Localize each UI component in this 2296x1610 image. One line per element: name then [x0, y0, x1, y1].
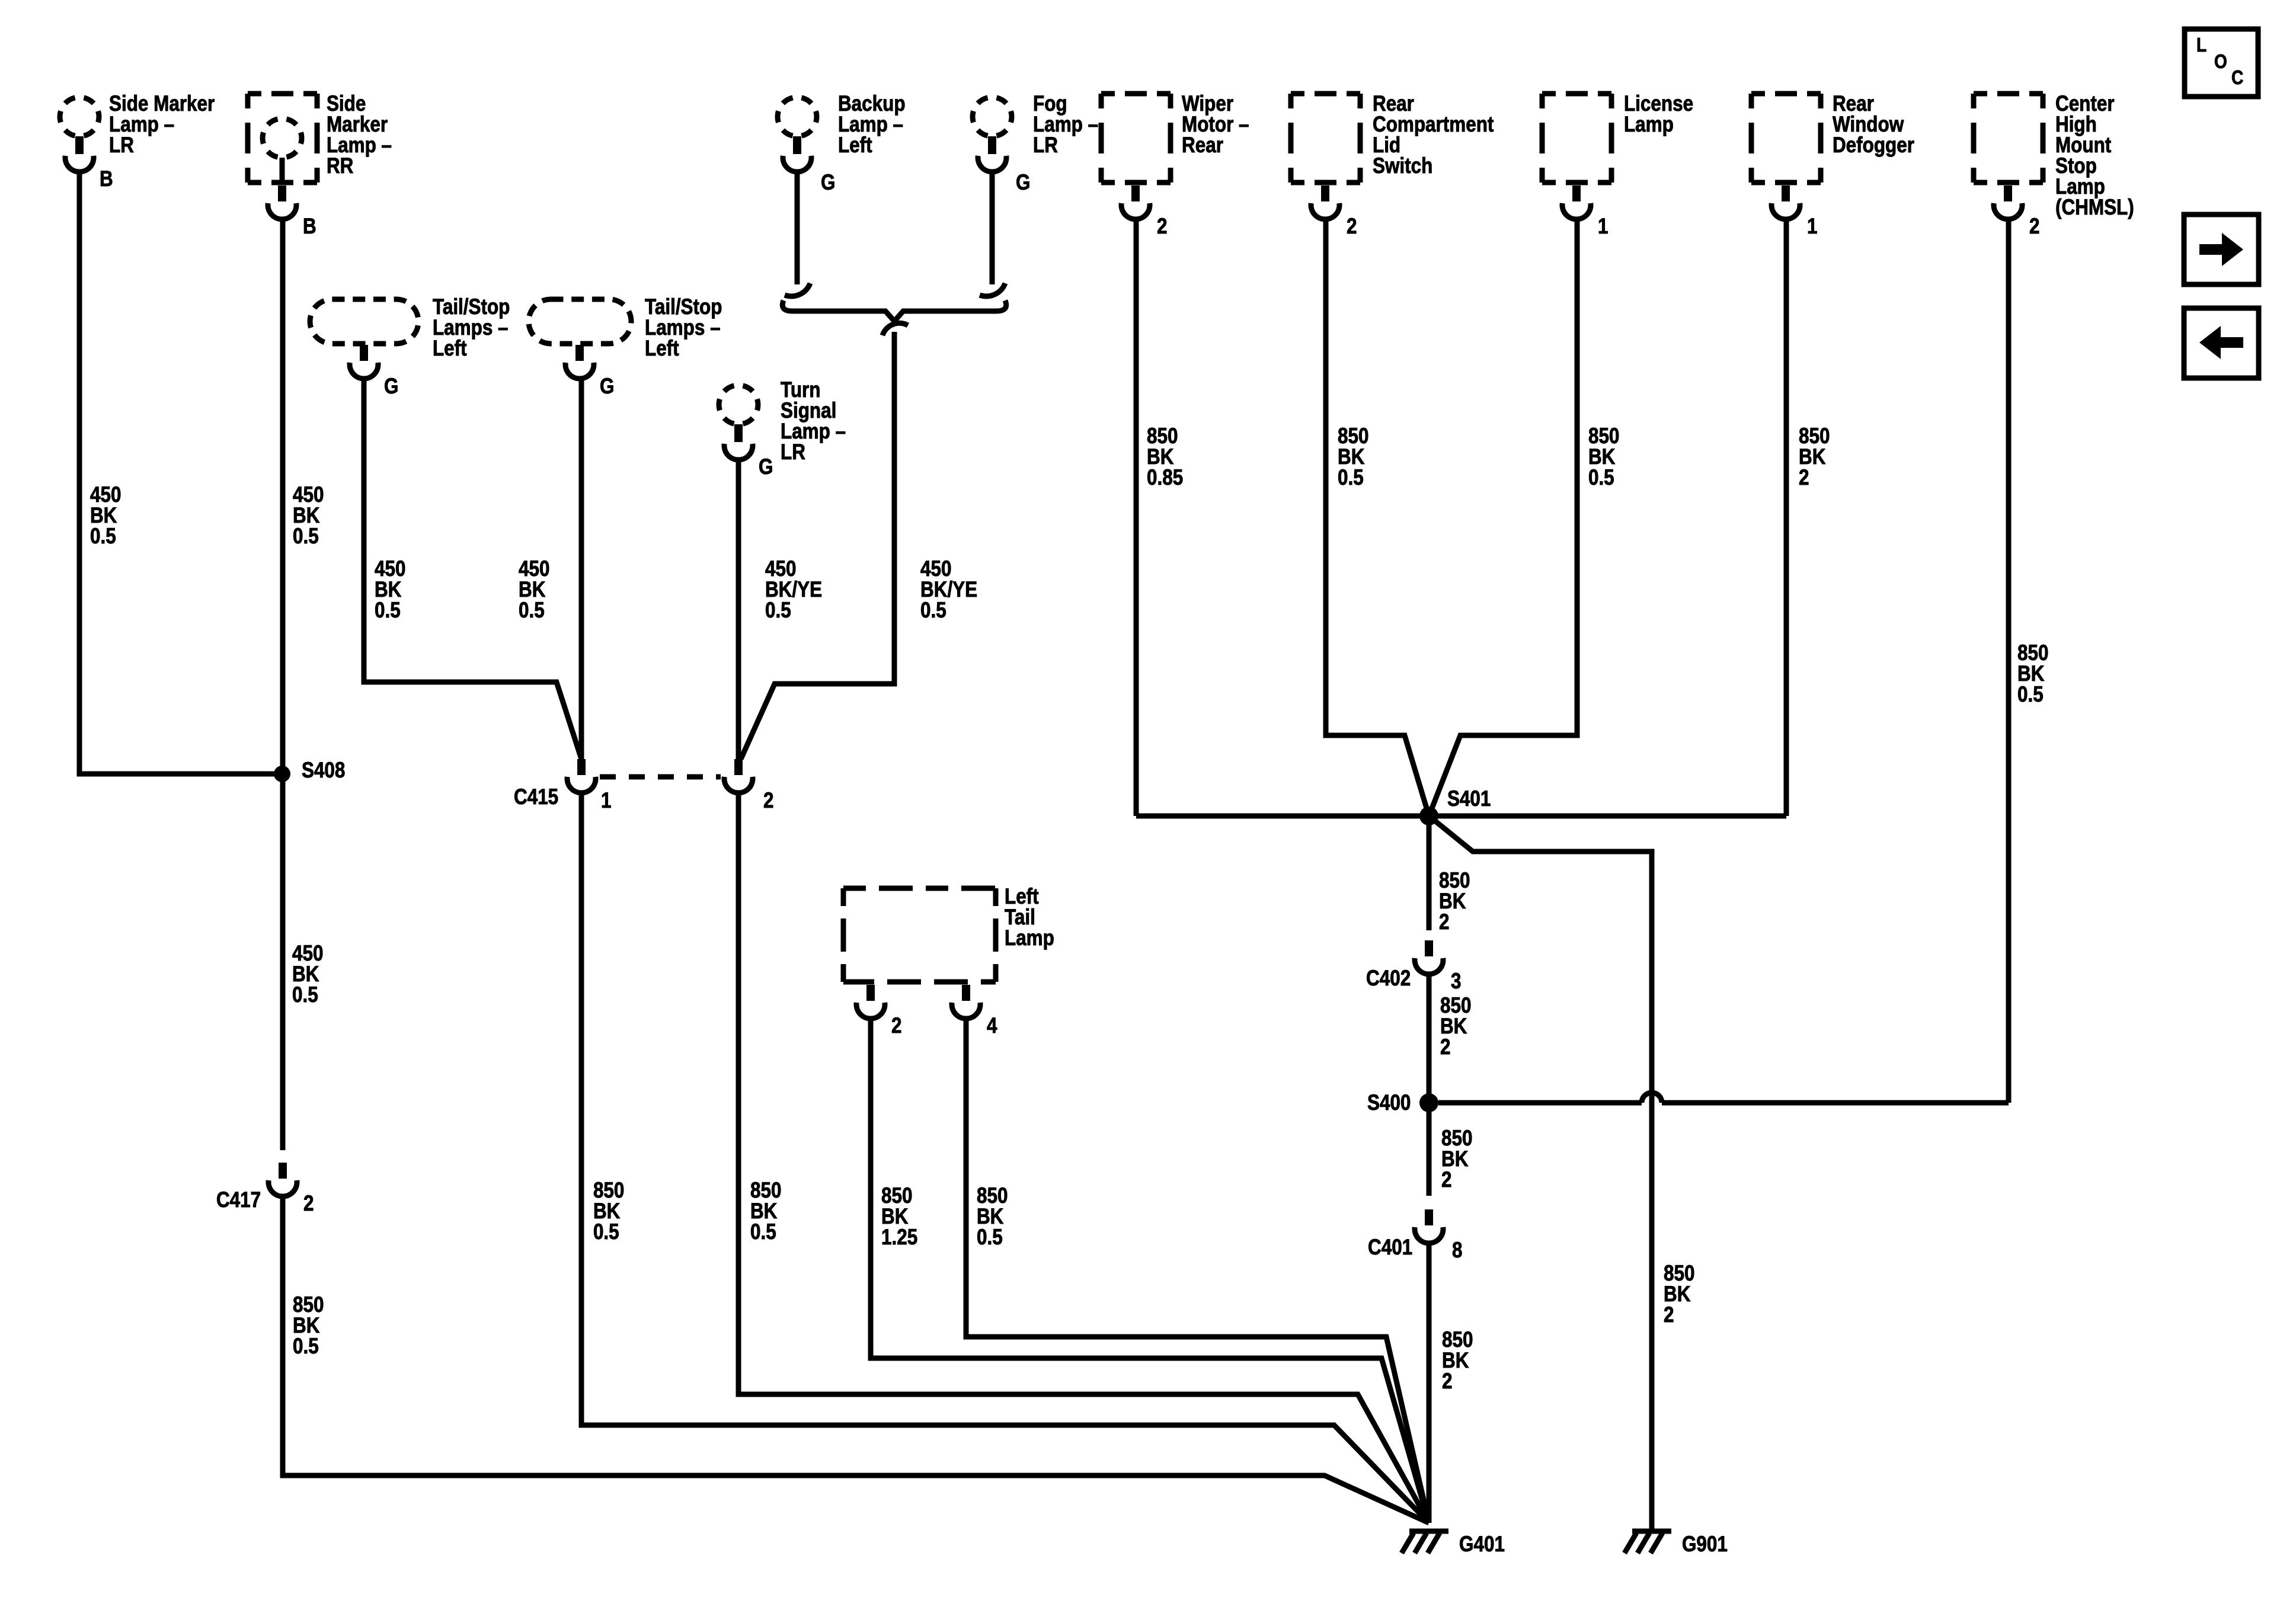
svg-text:0.5: 0.5	[90, 524, 116, 549]
lamp: Side Marker Lamp - LR (bulb)	[60, 97, 99, 172]
svg-text:Left: Left	[645, 337, 679, 361]
label: Fog Lamp - LR text	[1033, 92, 1098, 158]
label: Left Tail Lamp text	[1005, 885, 1054, 950]
svg-text:2: 2	[1347, 215, 1357, 239]
wire: 850 BK 0.5 from C415 pin 2 down, right, diagonal to G401	[738, 792, 1429, 1523]
svg-text:2: 2	[303, 1192, 314, 1216]
pin number 2 at C417	[303, 1192, 314, 1216]
label S408	[302, 758, 345, 783]
svg-text:G: G	[600, 375, 614, 399]
svg-text:2: 2	[1441, 1168, 1451, 1192]
wire: Fog Lamp lead down to brace	[990, 171, 995, 284]
label: 850 BK 0.5 label below C417	[293, 1293, 324, 1359]
hook at fog lead end	[980, 283, 1005, 296]
svg-text:2: 2	[1157, 215, 1167, 239]
label C402	[1366, 966, 1411, 991]
label: 450 BK 0.5 label on Tail/Stop #2 wire	[519, 557, 549, 623]
label: Side Marker Lamp - RR text	[327, 92, 392, 178]
svg-text:RR: RR	[327, 154, 354, 178]
svg-text:L: L	[2196, 34, 2207, 56]
lamp: Backup Lamp - Left (bulb)	[778, 97, 817, 172]
svg-text:2: 2	[1664, 1303, 1674, 1327]
label: 450 BK/YE 0.5 label on merged backup/fog wire	[920, 557, 977, 623]
svg-text:(CHMSL): (CHMSL)	[2055, 196, 2134, 220]
node S400 splice	[1419, 1093, 1438, 1112]
label C415	[514, 785, 558, 809]
wire: 850 BK 2 from S400 down to C401	[1427, 1103, 1432, 1196]
svg-text:G: G	[821, 171, 835, 195]
wire: 850 BK 0.85 from Wiper Motor down to S401 rail	[1134, 218, 1139, 816]
pin 2 of Left Tail Lamp	[891, 1014, 901, 1038]
label S401	[1447, 787, 1491, 811]
svg-text:3: 3	[1451, 969, 1461, 994]
svg-text:0.85: 0.85	[1147, 466, 1183, 490]
svg-text:Lamp: Lamp	[1624, 113, 1674, 137]
svg-text:1: 1	[1598, 215, 1608, 239]
wire: 850 BK 2 from C401 down to G401	[1427, 1242, 1432, 1523]
label: 450 BK 0.5 label on Side Marker RR wire	[293, 483, 324, 549]
wire: 450 BK 0.5 from Tail/Stop #1 down, right, diagonal to C415 pin 1	[364, 377, 581, 759]
svg-text:LR: LR	[109, 133, 134, 158]
svg-text:C415: C415	[514, 785, 558, 809]
dashed link between C415 pins	[600, 774, 721, 780]
wire: Left Tail Lamp pin 2 down, right, diagonal to G401	[871, 1017, 1429, 1523]
svg-text:0.5: 0.5	[1338, 466, 1364, 490]
svg-text:0.5: 0.5	[1588, 466, 1614, 490]
label: 850 BK 0.5 label below C415 pin 1	[593, 1179, 624, 1244]
brace merging backup and fog leads	[782, 300, 1006, 321]
label: 850 BK 0.5 label on Lid Switch wire	[1338, 424, 1368, 490]
node S408 splice	[274, 766, 290, 782]
hook at backup lead end	[785, 283, 810, 296]
svg-text:0.5: 0.5	[293, 1334, 319, 1359]
component: Center High Mount Stop Lamp CHMSL (dashed box)	[1974, 94, 2043, 219]
ground G901	[1625, 1531, 1671, 1553]
svg-text:C: C	[2231, 67, 2243, 89]
svg-text:2: 2	[2029, 215, 2039, 239]
wire: 850 BK 0.5 from C415 pin 1 down, right, diagonal to G401	[581, 792, 1429, 1523]
pin G of Fog Lamp	[1016, 171, 1030, 195]
svg-text:Defogger: Defogger	[1833, 133, 1914, 158]
svg-text:LR: LR	[1033, 133, 1058, 158]
pin 1 of License Lamp	[1598, 215, 1608, 239]
pin 2 of Wiper Motor	[1157, 215, 1167, 239]
label: 850 BK 0.5 label on tail lamp pin 4 wire	[977, 1184, 1008, 1250]
label C417	[216, 1188, 261, 1212]
svg-text:4: 4	[987, 1014, 997, 1038]
label: License Lamp text	[1624, 92, 1693, 137]
svg-text:0.5: 0.5	[920, 598, 946, 623]
label: 850 BK 1.25 label on tail lamp pin 2 wire	[881, 1184, 917, 1250]
svg-text:C402: C402	[1366, 966, 1411, 991]
svg-text:0.5: 0.5	[293, 524, 319, 549]
pin number 8 at C401	[1452, 1238, 1462, 1263]
wire: 850 BK 0.5 from C417 down, right, diagonal to G401	[283, 1195, 1429, 1523]
wire: Backup Lamp lead down to brace	[795, 171, 800, 284]
label: Wiper Motor - Rear text	[1182, 92, 1249, 158]
lamp: Turn Signal Lamp - LR (bulb)	[719, 385, 758, 460]
label: 850 BK 0.5 label below C415 pin 2	[750, 1179, 781, 1244]
wire: 850 BK 0.5 from Lid Switch down, diagonal to S401	[1326, 218, 1429, 816]
connector C415 pin 1 (bar and cup)	[567, 759, 596, 793]
svg-text:1: 1	[1807, 215, 1817, 239]
label: 850 BK 2 label between C402 and S400	[1440, 994, 1471, 1060]
svg-text:G: G	[1016, 171, 1030, 195]
legend: LOC box	[2185, 29, 2258, 97]
pin G of Tail/Stop Lamps #2	[600, 375, 614, 399]
lamp: Side Marker Lamp - RR (boxed bulb)	[248, 94, 317, 219]
svg-text:2: 2	[1440, 1035, 1450, 1060]
label: Rear Compartment Lid Switch text	[1373, 92, 1494, 178]
svg-text:G: G	[384, 375, 398, 399]
svg-text:G: G	[759, 455, 773, 479]
label G901	[1682, 1532, 1728, 1557]
svg-text:Lamp: Lamp	[1005, 926, 1054, 950]
pin G of Turn Signal Lamp	[759, 455, 773, 479]
svg-text:2: 2	[1439, 910, 1449, 934]
lamp: Tail/Stop Lamps - Left #2 (stadium)	[529, 299, 631, 379]
label: 850 BK 2 label on G901 wire	[1664, 1262, 1694, 1327]
wire: 450 BK/YE 0.5 merged backup/fog down, left, diagonal to C415 pin 2	[741, 332, 894, 759]
pin G of Tail/Stop Lamps #1	[384, 375, 398, 399]
svg-text:0.5: 0.5	[2017, 683, 2044, 707]
wire: 450 BK 0.5 from Side Marker LR down and right to S408	[79, 171, 279, 774]
svg-text:0.5: 0.5	[593, 1220, 619, 1244]
pin number 1 at C415	[601, 789, 611, 813]
wire: 450 BK/YE 0.5 from Turn Signal down to C415 pin 2	[736, 459, 741, 759]
label: 850 BK 2 label between S401 and C402	[1439, 869, 1470, 934]
label: 850 BK 2 label between C401 and G401	[1442, 1328, 1473, 1394]
pin 2 of Lid Switch	[1347, 215, 1357, 239]
pin 1 of Defogger	[1807, 215, 1817, 239]
wire: 450 BK 0.5 from Tail/Stop #2 down to C415 pin 1	[579, 377, 584, 759]
svg-text:8: 8	[1452, 1238, 1462, 1263]
pin number 3 at C402	[1451, 969, 1461, 994]
svg-text:0.5: 0.5	[375, 598, 401, 623]
ground G401	[1402, 1531, 1448, 1553]
connector C402 (bar and cup)	[1415, 940, 1443, 974]
label: Backup Lamp - Left text	[838, 92, 906, 158]
wire: 850 BK 2 from Defogger down to S401 rail	[1784, 218, 1789, 816]
svg-text:Left: Left	[433, 337, 467, 361]
connector C415 pin 2 (bar and cup)	[724, 759, 753, 793]
wire: S401 horizontal rail	[1136, 814, 1786, 819]
svg-text:1.25: 1.25	[881, 1225, 917, 1250]
label C401	[1368, 1235, 1412, 1260]
hook below brace	[882, 323, 908, 335]
svg-text:0.5: 0.5	[750, 1220, 776, 1244]
label: Side Marker Lamp - LR text	[109, 92, 215, 158]
svg-text:1: 1	[601, 789, 611, 813]
label: Tail/Stop Lamps - Left #2 text	[645, 295, 722, 361]
component: Left Tail Lamp (dashed box)	[843, 888, 996, 1019]
label: 450 BK 0.5 label between S408 and C417	[292, 942, 323, 1007]
svg-text:2: 2	[891, 1014, 901, 1038]
pin number 2 at C415	[763, 789, 773, 813]
legend: right arrow box	[2184, 215, 2259, 284]
pin B of Side Marker Lamp - RR	[303, 215, 316, 239]
label: 850 BK 2 label between S400 and C401	[1441, 1126, 1472, 1192]
svg-text:O: O	[2214, 51, 2227, 73]
wire: 850 BK 2 from S401 down to C402	[1427, 816, 1432, 930]
component: Rear Compartment Lid Switch (dashed box)	[1291, 94, 1360, 219]
svg-text:LR: LR	[781, 440, 805, 465]
label G401	[1459, 1532, 1505, 1557]
svg-text:G401: G401	[1459, 1532, 1505, 1557]
component: Wiper Motor - Rear (dashed box)	[1101, 94, 1171, 219]
wire: 850 BK 2 branch from S401 to G901 vertical	[1429, 816, 1652, 1530]
svg-text:S408: S408	[302, 758, 345, 783]
label: Tail/Stop Lamps - Left #1 text	[433, 295, 510, 361]
legend: left arrow box	[2184, 308, 2259, 378]
label: 850 BK 2 label on Defogger wire	[1799, 424, 1830, 490]
pin 2 of CHMSL	[2029, 215, 2039, 239]
svg-text:S400: S400	[1367, 1091, 1411, 1115]
label: CHMSL text	[2055, 92, 2134, 220]
label: 850 BK 0.5 label on CHMSL wire	[2017, 641, 2048, 707]
connector C417 (bar and cup)	[268, 1163, 297, 1196]
wire: 850 BK 2 from C402 down to S400	[1427, 973, 1432, 1103]
svg-text:2: 2	[1799, 466, 1809, 490]
label S400	[1367, 1091, 1411, 1115]
node S401 splice	[1419, 806, 1438, 825]
svg-text:0.5: 0.5	[292, 983, 318, 1007]
svg-text:G901: G901	[1682, 1532, 1728, 1557]
lamp: Tail/Stop Lamps - Left #1 (stadium)	[310, 299, 418, 379]
label: Turn Signal Lamp - LR text	[781, 378, 846, 465]
svg-text:B: B	[100, 167, 113, 191]
pin B of Side Marker Lamp - LR	[100, 167, 113, 191]
svg-text:Switch: Switch	[1373, 154, 1432, 178]
svg-text:0.5: 0.5	[519, 598, 545, 623]
svg-text:Rear: Rear	[1182, 133, 1223, 158]
svg-text:0.5: 0.5	[765, 598, 791, 623]
label: 450 BK 0.5 label on Tail/Stop #1 wire	[375, 557, 405, 623]
svg-text:B: B	[303, 215, 316, 239]
pin G of Backup Lamp	[821, 171, 835, 195]
component: License Lamp (dashed box)	[1542, 94, 1611, 219]
wire: 850 BK 0.5 from License Lamp down, diagonal to S401	[1429, 218, 1577, 816]
svg-text:C401: C401	[1368, 1235, 1412, 1260]
connector C401 (bar and cup)	[1415, 1209, 1443, 1243]
label: 450 BK/YE 0.5 label on Turn Signal wire	[765, 557, 822, 623]
svg-text:2: 2	[1442, 1369, 1452, 1394]
wire: Left Tail Lamp pin 4 down, right, diagonal to G401	[966, 1017, 1429, 1523]
lamp: Fog Lamp - LR (bulb)	[973, 97, 1012, 172]
label: 450 BK 0.5 label on Side Marker LR wire	[90, 483, 121, 549]
wire: 450 BK 0.5 from Side Marker RR down through S408 to C417	[280, 218, 286, 1150]
svg-text:C417: C417	[216, 1188, 261, 1212]
label: 850 BK 0.85 label on Wiper Motor wire	[1147, 424, 1183, 490]
wire: 850 BK 0.5 from CHMSL down to S400 rail	[2006, 218, 2012, 1103]
pin 4 of Left Tail Lamp	[987, 1014, 997, 1038]
wire: S400 horizontal to CHMSL wire with hop over G901 wire	[1438, 1100, 1642, 1106]
label: Rear Window Defogger text	[1833, 92, 1914, 158]
component: Rear Window Defogger (dashed box)	[1751, 94, 1821, 219]
svg-text:Left: Left	[838, 133, 872, 158]
svg-text:2: 2	[763, 789, 773, 813]
svg-text:0.5: 0.5	[977, 1225, 1003, 1250]
label: 850 BK 0.5 label on License Lamp wire	[1588, 424, 1619, 490]
svg-text:S401: S401	[1447, 787, 1491, 811]
